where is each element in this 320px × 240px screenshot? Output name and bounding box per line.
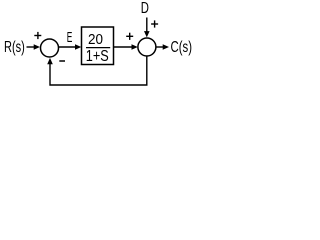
svg-text:20: 20 xyxy=(88,32,103,48)
fraction bar xyxy=(86,47,110,49)
minus sign at S1 feedback input xyxy=(59,60,65,62)
summing junction S1 xyxy=(41,39,59,57)
wire D to summing junction S2 xyxy=(144,18,150,38)
wire block G1 to summing junction S2 xyxy=(114,44,138,50)
wire S1 to block G1 (error signal) xyxy=(59,44,81,50)
plus sign at S2 left input xyxy=(126,33,133,40)
feedback wire from S2 bottom to S1 bottom xyxy=(50,57,147,86)
plus sign at S2 top input xyxy=(151,20,158,27)
svg-text:C(s): C(s) xyxy=(171,39,193,56)
background xyxy=(0,0,196,96)
svg-text:E: E xyxy=(67,29,73,46)
svg-text:D: D xyxy=(141,0,149,17)
block G1 transfer function 20/(1+S) xyxy=(82,27,114,65)
feedback arrowhead into S1 xyxy=(47,58,53,64)
plus sign at S1 upper-left input xyxy=(34,32,41,39)
svg-text:R(s): R(s) xyxy=(4,39,25,56)
wire R(s) to summing junction S1 xyxy=(27,44,41,50)
wire S2 to output C(s) xyxy=(157,44,170,50)
summing junction S2 xyxy=(138,38,156,56)
svg-text:1+S: 1+S xyxy=(86,48,109,65)
